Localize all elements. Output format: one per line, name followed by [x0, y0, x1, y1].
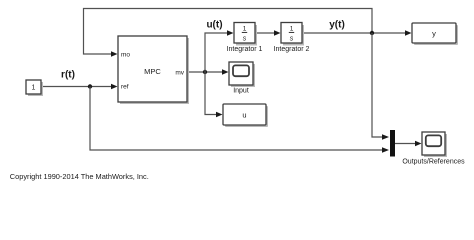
svg-text:MPC: MPC: [144, 67, 161, 76]
wire r(t) branch to mux input 2: [90, 87, 389, 153]
wire mv to Input scope: [187, 69, 229, 74]
svg-text:s: s: [243, 35, 247, 42]
block Outputs/References scope: [402, 132, 465, 165]
wire feedback y(t) to mo: [84, 9, 373, 57]
block Input scope: [229, 62, 255, 95]
svg-text:y(t): y(t): [329, 20, 345, 31]
svg-text:Integrator 1: Integrator 1: [227, 46, 263, 53]
node junction r(t): [88, 84, 92, 88]
block MPC: [118, 36, 189, 104]
svg-text:y: y: [432, 29, 436, 38]
block u (outport): [223, 104, 268, 127]
svg-text:ref: ref: [121, 84, 129, 91]
svg-text:Input: Input: [233, 88, 249, 95]
svg-text:1: 1: [32, 84, 36, 91]
wire y(t) branch to mux input 1: [372, 33, 389, 140]
svg-text:Copyright 1990-2014 The MathWo: Copyright 1990-2014 The MathWorks, Inc.: [10, 172, 149, 181]
block Integrator 2: [274, 23, 310, 54]
wire r(t) constant to ref: [41, 84, 118, 89]
svg-text:u(t): u(t): [206, 20, 222, 31]
block y (outport): [412, 23, 458, 45]
wire u(t) to Integrator 1: [205, 30, 234, 72]
wire mux to Outputs scope: [395, 141, 422, 146]
block Integrator 1: [227, 23, 263, 54]
svg-text:1: 1: [290, 26, 294, 33]
svg-text:u: u: [242, 110, 246, 119]
mux block: [390, 130, 395, 157]
svg-text:r(t): r(t): [61, 69, 75, 80]
svg-text:Outputs/References: Outputs/References: [402, 158, 465, 165]
svg-text:mv: mv: [175, 69, 184, 76]
svg-text:mo: mo: [121, 51, 130, 58]
constant block 1: [26, 80, 43, 96]
wire Integrator 1 to Integrator 2: [255, 30, 281, 35]
svg-text:1: 1: [243, 26, 247, 33]
node junction y(t): [370, 31, 374, 35]
svg-text:s: s: [290, 35, 294, 42]
wire mv branch to u block: [205, 72, 223, 117]
wire y(t) Integrator 2 to y block: [302, 30, 412, 35]
svg-text:Integrator 2: Integrator 2: [274, 46, 310, 53]
node junction mv: [203, 70, 207, 74]
